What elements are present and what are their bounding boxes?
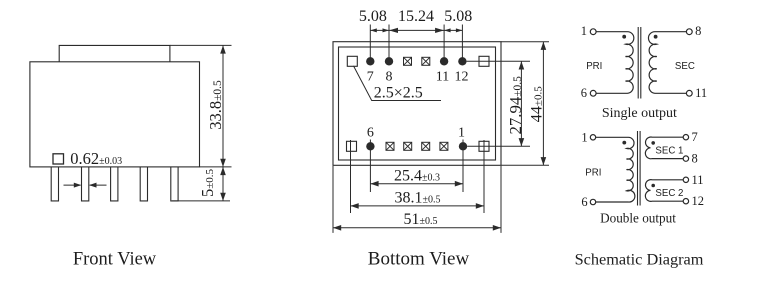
svg-text:0.62±0.03: 0.62±0.03 [70,149,122,168]
double output: terminal 6 circle [590,199,595,204]
front view: height dimension line 33.8 [222,45,224,166]
svg-text:8: 8 [695,24,701,38]
single output: secondary polarity dot [654,35,658,39]
bottom view: top-right mounting square pad [479,56,489,66]
bottom view: pitch dimension 5.08 (pins 11-12) [444,29,462,31]
bottom view: bottom-right mounting square pad [479,141,489,151]
svg-text:51±0.5: 51±0.5 [404,211,438,228]
double output: SEC 1 polarity dot [651,141,655,145]
svg-text:27.94±0.5: 27.94±0.5 [506,76,525,135]
double output: terminal 11 circle [683,177,688,182]
double output: secondary winding SEC 2 (pins 11-12) [645,180,683,202]
svg-text:1: 1 [458,126,465,141]
svg-text:2.5×2.5: 2.5×2.5 [374,85,423,102]
bottom view: pitch dimension 15.24 (pins 8-11) [389,29,444,31]
double output: primary winding PRI (pins 1-6) [596,137,635,202]
bottom view: extension lines below (pins 6-1, pads, case) [350,140,352,213]
front view: extension line from body bottom [200,166,232,168]
front view: pin 4 lead [140,167,147,201]
bottom view: pad span dimension 38.1 [351,205,485,207]
bottom view: crossed square (no pin position 5) [386,142,394,150]
bottom view: leader line for mounting pad size [354,66,442,101]
svg-text:Bottom View: Bottom View [368,248,470,269]
bottom view: top-left mounting square pad [347,56,357,66]
svg-text:Single output: Single output [602,106,677,121]
svg-text:Schematic Diagram: Schematic Diagram [575,250,704,269]
svg-text:SEC 1: SEC 1 [655,145,683,156]
svg-text:12: 12 [455,70,469,85]
front view: extension line from top of cover [170,44,232,46]
front view: transformer body outline [30,62,200,167]
bottom view: overall depth dimension line 44 [542,42,544,166]
svg-text:SEC 2: SEC 2 [655,188,683,199]
bottom view: pin 11 pad [440,57,448,65]
svg-text:25.4±0.3: 25.4±0.3 [394,168,440,185]
double output: SEC 2 polarity dot [651,184,655,188]
front view: pin 2 lead [82,167,89,201]
svg-text:6: 6 [581,195,587,209]
bottom view: pin pitch extension lines [369,25,371,63]
svg-text:7: 7 [367,70,374,85]
double output: secondary winding SEC 1 (pins 7-8) [645,137,683,159]
front view: extension line from pin bottom [172,200,230,202]
single output: terminal 8 circle [686,29,692,35]
svg-text:12: 12 [692,194,705,208]
bottom view: pitch dimension 5.08 (pins 7-8) [370,29,389,31]
svg-text:5.08: 5.08 [444,8,472,25]
svg-text:SEC: SEC [675,61,695,72]
bottom view: crossed square (no pin position 9) [404,57,412,65]
svg-text:5.08: 5.08 [359,8,387,25]
svg-text:1: 1 [581,130,587,144]
single output: primary polarity dot [622,35,626,39]
svg-text:6: 6 [581,86,587,100]
bottom view: pin span dimension 25.4 [370,183,463,185]
front view: pin 3 lead [111,167,118,201]
front view: pin 5 (rightmost lead) [171,167,178,201]
single output: terminal 11 circle [686,90,692,96]
single output: core lines [637,27,639,99]
bottom view: outer case outline [333,42,501,166]
svg-text:Front View: Front View [73,249,157,269]
svg-text:PRI: PRI [586,61,602,72]
bottom view: row spacing dimension line 27.94 [520,61,522,146]
double output: terminal 12 circle [683,199,688,204]
front view: pin cross-section square symbol [53,154,64,164]
bottom view: pin 12 pad [458,57,466,65]
bottom view: crossed square (no pin position 2) [440,142,448,150]
double output: primary polarity dot [622,141,626,145]
bottom view: wire from pin 1 through right pad to row-spacing dim [467,145,530,147]
svg-text:6: 6 [367,126,374,141]
bottom view: overall width dimension 51 [333,227,501,229]
svg-text:Double output: Double output [600,210,676,225]
svg-text:5±0.5: 5±0.5 [198,168,217,197]
svg-text:11: 11 [436,70,449,85]
bottom view: inner case outline [339,47,496,160]
svg-text:11: 11 [695,86,707,100]
double output: terminal 8 circle [683,156,688,161]
svg-text:8: 8 [692,152,698,166]
bottom view: extension lines for overall width 44 [501,41,549,43]
svg-text:8: 8 [386,70,393,85]
svg-text:1: 1 [581,24,587,38]
front view: pin width arrows (0.62 dim) [64,184,81,186]
double output: terminal 1 circle [590,135,595,140]
svg-text:33.8±0.5: 33.8±0.5 [206,80,225,130]
svg-text:38.1±0.5: 38.1±0.5 [395,189,441,206]
svg-text:7: 7 [692,130,698,144]
single output: terminal 1 circle [590,29,596,35]
bottom view: pin 8 pad [385,57,393,65]
front view: pin 1 (leftmost lead) [51,167,58,201]
bottom view: bottom-left mounting square pad [347,141,357,151]
single output: secondary winding SEC (pins 8-11) [648,32,686,94]
front view: pin length dimension line 5 [222,167,224,201]
bottom view: pin 6 pad [366,142,374,150]
bottom view: wire from pin 12 through right pad to row-spacing dim [467,60,530,62]
bottom view: crossed square (no pin position 10) [422,57,430,65]
bottom view: pin 1 pad [459,142,467,150]
svg-text:PRI: PRI [585,168,601,179]
bottom view: pin 7 pad [366,57,374,65]
double output: core lines [637,131,639,206]
single output: terminal 6 circle [590,90,596,96]
svg-text:15.24: 15.24 [398,8,434,25]
double output: terminal 7 circle [683,135,688,140]
single output: primary winding PRI (pins 1-6) [596,32,634,94]
svg-text:11: 11 [692,173,704,187]
svg-text:44±0.5: 44±0.5 [527,86,546,123]
bottom view: crossed square (no pin position 4) [404,142,412,150]
front view: top cover rectangle [59,45,170,61]
bottom view: crossed square (no pin position 3) [422,142,430,150]
